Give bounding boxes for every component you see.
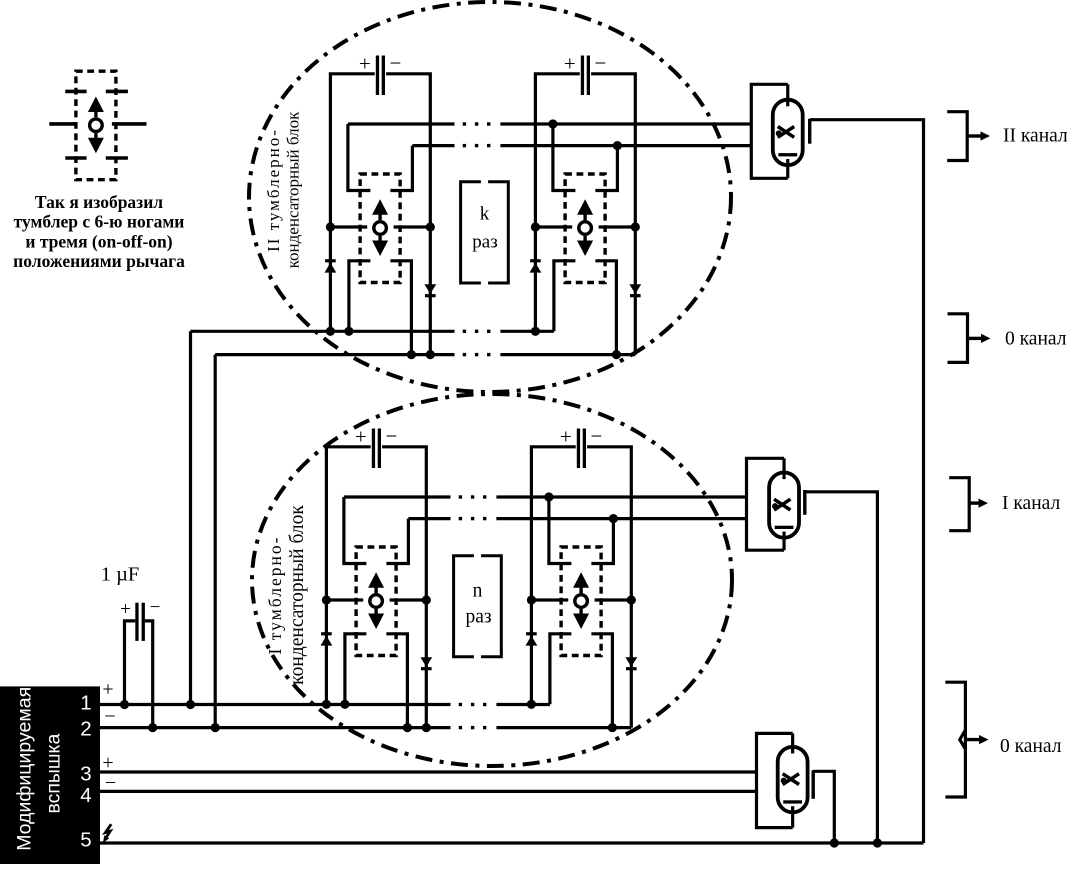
wire: toggle switch S1 bottom-right contact down to bus	[390, 261, 411, 355]
diode VD8 (pointing down)	[625, 657, 637, 667]
toggle switch S2 dashed body	[565, 174, 605, 283]
svg-text:−: −	[385, 424, 397, 448]
junction	[830, 838, 839, 847]
capacitor capacitor C2 plates	[581, 56, 584, 96]
svg-text:конденсаторный блок: конденсаторный блок	[284, 111, 303, 268]
lamp HL2 gas-discharge cross mark	[778, 127, 794, 138]
junction	[609, 514, 618, 523]
capacitor capacitor C3 plates	[372, 429, 375, 469]
node: block I upper bus 1	[344, 495, 451, 498]
junction	[322, 595, 331, 604]
lamp HL1 gas-discharge cross mark	[774, 499, 790, 510]
svg-text:вспышка: вспышка	[43, 733, 65, 813]
wire: C5 plus lead to pin1 bus	[125, 621, 136, 705]
wire: toggle switch S2 centre-right contact	[599, 225, 636, 228]
wire: capacitor C1 loop top-left + outer-left vertical	[330, 74, 374, 332]
toggle switch S4 lever up arrow	[579, 587, 582, 594]
diode VD4 (pointing down)	[629, 284, 641, 294]
wire: toggle switch S4 centre-right contact	[595, 598, 632, 601]
lamp HL2 bottom electrode bar	[778, 153, 797, 156]
capacitor capacitor C4 plates	[577, 429, 580, 469]
arrow to II канал	[967, 134, 983, 137]
toggle switch S3 common-pole circle	[370, 595, 383, 608]
lamp HL1 feed bracket (wires from buses wrap to electrodes)	[747, 458, 785, 550]
wire: pin4 bus to bottom lamp	[100, 790, 757, 793]
svg-text:положениями рычага: положениями рычага	[13, 251, 185, 271]
diode VD7 (pointing up)	[526, 632, 537, 635]
junction	[322, 700, 331, 709]
svg-text:+: +	[564, 52, 576, 76]
lamp HL1 bottom electrode bar	[775, 526, 794, 529]
wire: capacitor C4 loop top-right + outer-right vertical	[587, 447, 631, 728]
lamp HL1 bottom electrode lead	[782, 532, 785, 551]
svg-text:тумблер с 6-ю ногами: тумблер с 6-ю ногами	[14, 212, 185, 232]
wire: capacitor C3 loop top-right + outer-right vertical	[382, 447, 426, 728]
wire: toggle switch S2 bottom-right contact down to bus	[595, 261, 616, 355]
wire: toggle switch S4 bottom-left contact down to bus	[550, 634, 572, 705]
lamp HL3 trigger electrode bar	[812, 770, 815, 799]
wire: toggle switch S2 centre-left contact	[535, 225, 572, 228]
arrow to I канал	[969, 501, 981, 504]
toggle switch S4 common-pole circle	[575, 595, 588, 608]
toggle switch S1 lever down arrow	[378, 236, 381, 243]
junction	[548, 119, 557, 128]
wire: bus2 link down to toggle switch S1 top-right contact	[390, 146, 412, 191]
diode VD2 (pointing down)	[424, 284, 436, 294]
svg-text:конденсаторный блок: конденсаторный блок	[287, 505, 308, 685]
junction	[344, 327, 353, 336]
junction	[627, 595, 636, 604]
svg-text:раз: раз	[465, 607, 491, 628]
svg-text:II канал: II канал	[1003, 126, 1067, 147]
junction	[608, 723, 617, 732]
svg-text:−: −	[104, 706, 115, 728]
svg-text:−: −	[389, 51, 401, 75]
toggle switch S2 lever down arrow	[583, 236, 586, 243]
svg-text:0 канал: 0 канал	[1000, 736, 1062, 757]
wire: toggle switch S4 centre-left contact	[531, 598, 568, 601]
svg-text:+: +	[355, 425, 367, 449]
svg-text:−: −	[590, 424, 602, 448]
svg-text:II тумблерно-: II тумблерно-	[264, 128, 283, 252]
svg-text:+: +	[102, 679, 113, 701]
wire: toggle switch S3 centre-right contact	[390, 598, 427, 601]
junction	[211, 723, 220, 732]
block I boundary (dash-dot ellipse)	[252, 394, 732, 766]
toggle switch S3 dashed body	[356, 547, 396, 656]
wire: bus2 link down to toggle switch S3 top-right contact	[386, 519, 408, 564]
wire: bus1 link down to toggle switch S3 top-left contact	[344, 497, 367, 564]
channel bracket for 0 канал	[945, 682, 965, 797]
svg-text:Так я изобразил: Так я изобразил	[35, 192, 163, 212]
repetition bracket "k раз"	[461, 182, 481, 283]
wire: capacitor C2 loop top-left + outer-left vertical	[535, 74, 579, 332]
wire: toggle switch S1 bottom-left contact down to bus	[349, 261, 371, 332]
svg-text:1 µF: 1 µF	[101, 564, 140, 586]
lamp HL3 feed bracket (wires from buses wrap to electrodes)	[757, 733, 793, 827]
wire: toggle switch S2 bottom-left contact down to bus	[554, 261, 576, 332]
legend toggle switch S0 dashed body	[76, 71, 116, 180]
svg-text:+: +	[560, 425, 572, 449]
svg-text:n: n	[473, 581, 483, 602]
junction	[426, 222, 435, 231]
toggle switch S4 lever down arrow	[579, 609, 582, 616]
lamp HL3 bottom electrode bar	[783, 800, 802, 803]
wire: rail from block II bus1 to pin1 bus	[189, 331, 192, 704]
junction	[426, 350, 435, 359]
legend toggle switch symbol legs	[65, 90, 86, 94]
junction	[873, 838, 882, 847]
wire: capacitor C4 loop top-left + outer-left vertical	[531, 447, 575, 705]
wire: bus1 link down to toggle switch S4 top-left contact	[549, 497, 572, 564]
lamp HL3 gas-discharge cross mark	[783, 774, 799, 785]
node: block II lower bus 2 (to flash -)	[215, 353, 454, 356]
bracket middle cusp	[960, 730, 966, 749]
junction	[531, 327, 540, 336]
wire: toggle switch S3 centre-left contact	[326, 598, 363, 601]
svg-text:+: +	[359, 52, 371, 76]
junction	[186, 700, 195, 709]
svg-text:k: k	[480, 204, 490, 225]
block II boundary (dash-dot ellipse)	[249, 2, 731, 392]
wire: bus1 link down to toggle switch S1 top-left contact	[348, 124, 371, 191]
svg-text:+: +	[120, 599, 131, 620]
svg-text:2: 2	[80, 718, 91, 741]
wire: pin3 bus to bottom lamp	[100, 770, 757, 773]
svg-text:I тумблерно-: I тумблерно-	[265, 536, 285, 655]
toggle switch S3 lever down arrow	[374, 609, 377, 616]
toggle switch S2 lever up arrow	[583, 214, 586, 221]
svg-text:−: −	[150, 597, 161, 618]
toggle switch S2 common-pole circle	[579, 222, 592, 235]
junction	[422, 595, 431, 604]
wire: lamp HL2 output to right rail	[810, 120, 924, 843]
wire: toggle switch S3 bottom-right contact down to bus	[386, 634, 407, 728]
junction	[148, 723, 157, 732]
svg-text:1: 1	[80, 692, 91, 715]
node: block II upper bus 1	[348, 122, 455, 125]
svg-text:5: 5	[80, 829, 91, 852]
lamp HL1 envelope	[769, 473, 799, 538]
node: flash pin1 bus (+)	[100, 703, 451, 706]
toggle switch S1 common-pole circle	[374, 222, 387, 235]
svg-text:раз: раз	[472, 232, 497, 253]
arrow to 0 канал	[968, 337, 984, 340]
junction	[340, 700, 349, 709]
capacitor capacitor C1 plates	[376, 56, 379, 96]
arrow to 0 канал	[965, 738, 981, 741]
junction	[544, 492, 553, 501]
junction	[631, 222, 640, 231]
junction	[527, 700, 536, 709]
channel bracket for I канал	[949, 478, 969, 531]
wire: rail from block II bus2 to pin2 bus	[214, 355, 217, 728]
wire: lamp HL3 output down to trigger bus	[813, 771, 834, 843]
diode VD1 (pointing up)	[325, 259, 336, 262]
channel bracket for II канал	[947, 112, 967, 161]
node: block II lower bus 1 (to flash +)	[191, 330, 455, 333]
node: flash pin2 bus (-)	[100, 726, 451, 729]
wire: capacitor C1 loop top-right + outer-right vertical	[386, 74, 430, 355]
wire: bus1 link down to toggle switch S2 top-left contact	[553, 124, 576, 191]
svg-text:−: −	[594, 51, 606, 75]
wire: toggle switch S1 centre-right contact	[394, 225, 431, 228]
capacitor C5 plates	[135, 603, 138, 641]
lamp HL2 envelope	[773, 100, 803, 165]
wire: bus2 link down to toggle switch S2 top-right contact	[595, 146, 617, 191]
legend toggle switch S0 lever up arrow	[94, 111, 97, 118]
junction	[527, 595, 536, 604]
lamp HL1 trigger electrode bar	[803, 490, 806, 515]
wire: toggle switch S3 bottom-left contact down to bus	[345, 634, 367, 705]
svg-text:Модифицируемая: Модифицируемая	[14, 687, 36, 851]
lamp HL3 envelope	[778, 747, 808, 812]
wire: toggle switch S1 centre-left contact	[330, 225, 367, 228]
lamp HL2 trigger electrode bar	[808, 119, 811, 144]
svg-text:0 канал: 0 канал	[1005, 329, 1067, 350]
junction	[120, 700, 129, 709]
wire: pin5 trigger bus	[100, 841, 924, 844]
lamp HL1 top electrode lead	[782, 458, 785, 479]
node: block I upper bus 2	[408, 517, 450, 520]
diode VD3 (pointing up)	[530, 259, 541, 262]
wire: lamp HL1 output rail down to trigger bus	[805, 492, 878, 843]
junction	[422, 723, 431, 732]
toggle switch S3 lever up arrow	[374, 587, 377, 594]
lamp HL3 top electrode lead	[791, 733, 794, 753]
wire: capacitor C3 loop top-left + outer-left vertical	[326, 447, 370, 705]
diode VD6 (pointing down)	[420, 657, 432, 667]
wire: capacitor C2 loop top-right + outer-right vertical	[591, 74, 635, 355]
legend toggle switch S0 lever down arrow	[94, 133, 97, 140]
flash unit body	[0, 686, 100, 864]
junction	[326, 327, 335, 336]
wire: C5 minus lead to pin2 bus	[145, 621, 153, 728]
wire: toggle switch S4 bottom-right contact down to bus	[591, 634, 612, 728]
svg-text:4: 4	[80, 784, 91, 807]
toggle switch S4 dashed body	[561, 547, 601, 656]
svg-text:I канал: I канал	[1002, 493, 1060, 514]
toggle switch S1 lever up arrow	[378, 214, 381, 221]
lamp HL2 feed bracket (wires from buses wrap to electrodes)	[751, 84, 787, 178]
wire: bus2 link down to toggle switch S4 top-right contact	[591, 519, 613, 564]
lamp HL3 bottom electrode lead	[791, 806, 794, 827]
junction	[403, 723, 412, 732]
pin5 trigger lightning mark	[105, 824, 111, 839]
junction	[407, 350, 416, 359]
diode VD5 (pointing up)	[321, 632, 332, 635]
legend toggle switch S0 common-pole circle	[90, 119, 103, 132]
lamp HL2 top electrode lead	[786, 84, 789, 106]
node: block II upper bus 2	[412, 144, 454, 147]
repetition bracket "n раз"	[454, 556, 474, 657]
junction	[613, 141, 622, 150]
toggle switch S1 dashed body	[360, 174, 400, 283]
lamp HL2 bottom electrode lead	[786, 159, 789, 178]
junction	[531, 222, 540, 231]
svg-text:и тремя (on-off-on): и тремя (on-off-on)	[25, 232, 172, 252]
svg-text:3: 3	[80, 763, 91, 786]
junction	[326, 222, 335, 231]
junction	[612, 350, 621, 359]
channel bracket for 0 канал	[948, 314, 968, 363]
